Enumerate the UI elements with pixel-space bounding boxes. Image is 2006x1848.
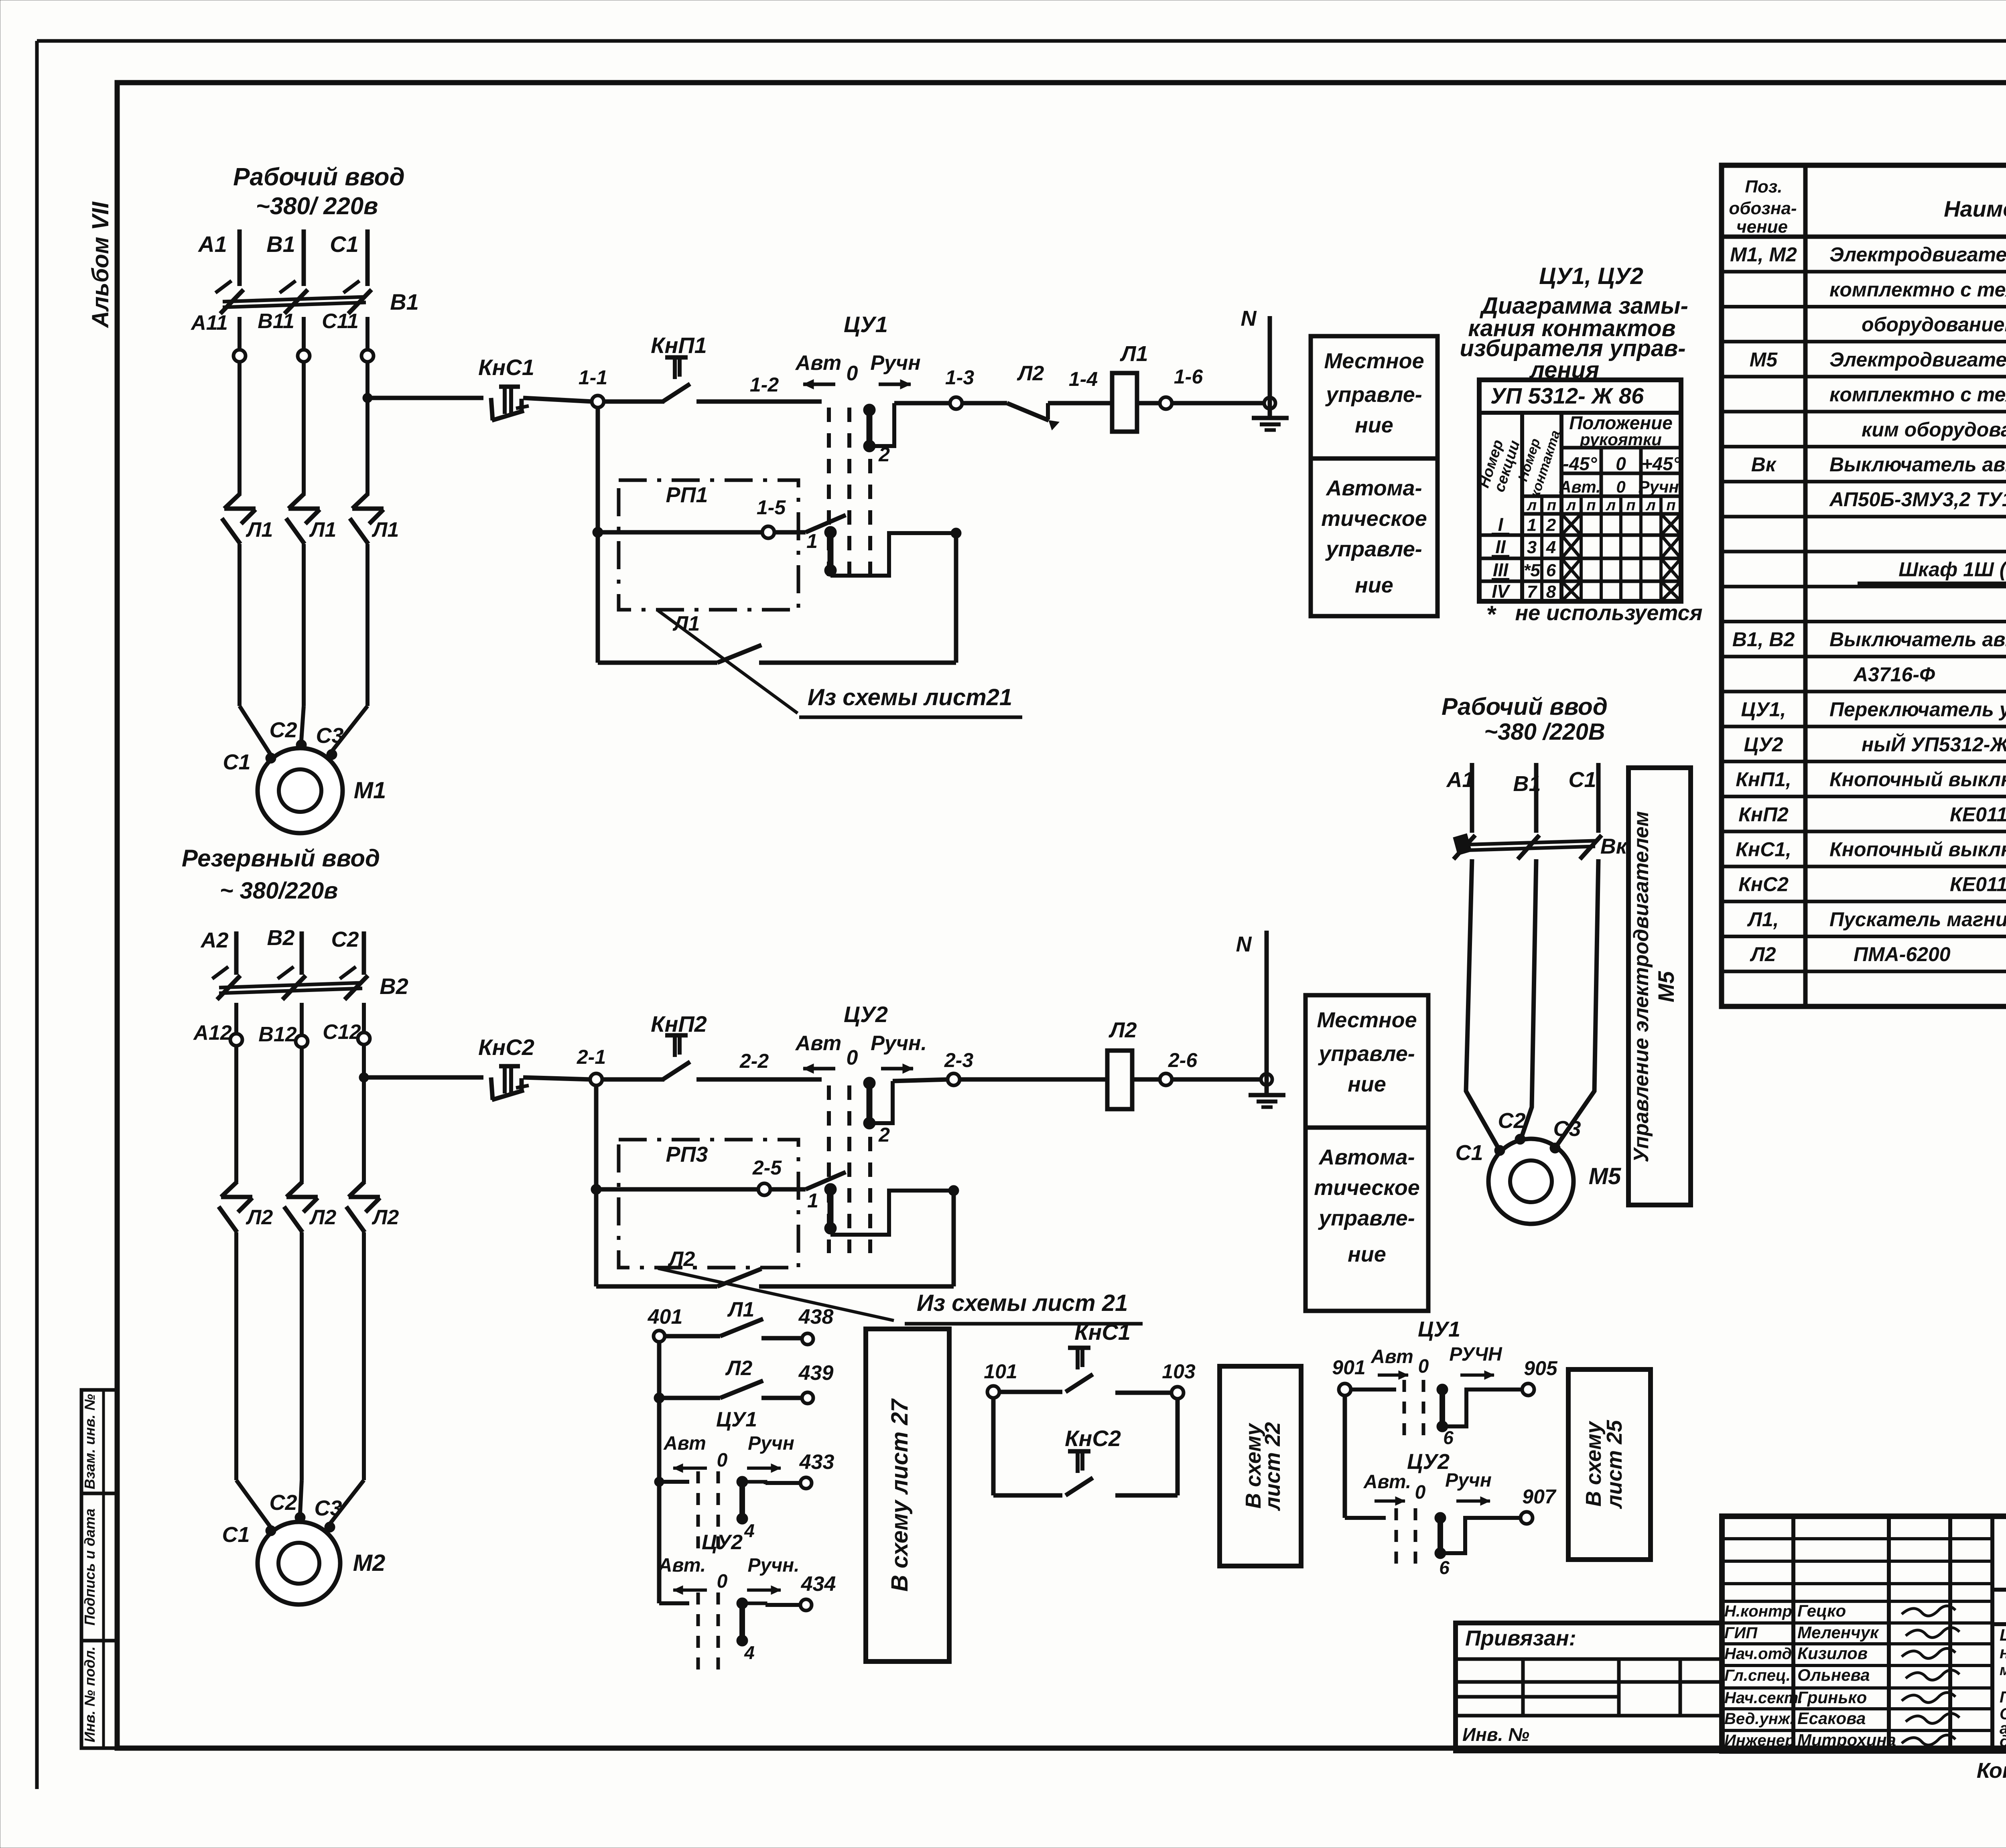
svg-text:Кнопочный выключатель: Кнопочный выключатель [1829, 768, 2006, 791]
svg-text:А12: А12 [193, 1021, 231, 1045]
svg-text:Подпись и дата: Подпись и дата [81, 1509, 98, 1626]
svg-text:КнС2: КнС2 [478, 1035, 534, 1060]
svg-text:6: 6 [1443, 1427, 1454, 1448]
svg-text:ние: ние [1355, 413, 1393, 437]
svg-text:л: л [1566, 497, 1576, 514]
svg-text:В схему лист 27: В схему лист 27 [887, 1398, 913, 1592]
svg-text:Управление электродвигателем: Управление электродвигателем [1630, 811, 1653, 1162]
svg-text:Резервный ввод: Резервный ввод [182, 845, 380, 872]
svg-text:~ 380/220в: ~ 380/220в [220, 878, 338, 904]
svg-text:0: 0 [717, 1571, 728, 1592]
svg-text:Л1: Л1 [372, 518, 399, 542]
svg-text:I: I [1498, 514, 1504, 535]
svg-text:В1, В2: В1, В2 [1732, 628, 1795, 651]
svg-text:Выключатель автоматический: Выключатель автоматический [1829, 628, 2006, 651]
svg-text:4: 4 [1546, 538, 1556, 557]
svg-text:N: N [1241, 306, 1257, 331]
svg-text:лист 25: лист 25 [1602, 1420, 1626, 1509]
svg-text:1-4: 1-4 [1069, 368, 1098, 390]
svg-text:В1: В1 [266, 231, 295, 257]
svg-text:М5: М5 [1589, 1163, 1621, 1189]
svg-text:0: 0 [1616, 453, 1626, 474]
svg-text:101: 101 [984, 1360, 1017, 1383]
svg-text:В2: В2 [267, 926, 294, 950]
svg-text:Выключатель автоматически: Выключатель автоматический [1829, 453, 2006, 476]
svg-text:1-5: 1-5 [757, 496, 786, 519]
svg-text:Взам. инв. №: Взам. инв. № [81, 1394, 98, 1489]
svg-text:ние: ние [1355, 573, 1393, 597]
svg-text:ЦУ1: ЦУ1 [716, 1408, 757, 1431]
svg-text:КнП1,: КнП1, [1736, 768, 1791, 791]
svg-text:п: п [1626, 497, 1635, 514]
svg-text:ким оборудованием: ким оборудованием [1862, 418, 2006, 441]
svg-text:управле-: управле- [1318, 1042, 1415, 1066]
svg-text:п: п [1586, 497, 1596, 514]
svg-text:С11: С11 [322, 310, 359, 333]
svg-text:С1: С1 [1568, 768, 1596, 792]
svg-text:С3: С3 [316, 724, 343, 748]
svg-text:ЦУ1: ЦУ1 [844, 312, 888, 337]
svg-text:6: 6 [1546, 561, 1556, 580]
svg-text:Авт: Авт [663, 1433, 706, 1454]
svg-text:Л1: Л1 [727, 1298, 755, 1321]
svg-text:1-3: 1-3 [945, 366, 974, 389]
svg-text:Ручн.: Ручн. [871, 1032, 927, 1055]
svg-text:Ольнева: Ольнева [1797, 1665, 1870, 1684]
svg-text:+45°: +45° [1642, 453, 1681, 474]
svg-text:чение: чение [1736, 217, 1788, 237]
svg-text:Из схемы лист 21: Из схемы лист 21 [917, 1290, 1128, 1316]
svg-text:7: 7 [1527, 582, 1538, 602]
svg-text:2-1: 2-1 [577, 1046, 606, 1068]
svg-text:комплектно с технологическ: комплектно с технологическим [1829, 278, 2006, 301]
svg-text:С1: С1 [1455, 1141, 1483, 1165]
svg-text:тическое: тическое [1321, 507, 1427, 531]
svg-text:~380 /220В: ~380 /220В [1484, 719, 1605, 745]
svg-text:Авт.: Авт. [1363, 1471, 1411, 1493]
svg-text:434: 434 [801, 1572, 836, 1596]
svg-text:тическое: тическое [1314, 1176, 1420, 1200]
svg-text:ние: ние [1348, 1072, 1386, 1096]
svg-text:Копировал Федоренко: Копировал Федоренко [1977, 1759, 2006, 1783]
svg-text:ЦУ2: ЦУ2 [1744, 733, 1783, 756]
svg-text:В2: В2 [380, 974, 408, 999]
svg-text:В11: В11 [258, 310, 294, 333]
svg-text:II: II [1495, 536, 1506, 557]
svg-text:л: л [1645, 497, 1656, 514]
svg-text:Авт.: Авт. [1559, 477, 1601, 496]
svg-text:Наименование: Наименование [1944, 196, 2006, 221]
svg-text:С2: С2 [269, 718, 297, 742]
svg-text:Л2: Л2 [1108, 1018, 1137, 1042]
svg-text:Рабочий ввод: Рабочий ввод [233, 163, 405, 191]
svg-text:Электродвигатель 4А225М2 У3: Электродвигатель 4А225М2 У3 [1829, 243, 2006, 266]
svg-text:управле-: управле- [1325, 383, 1422, 407]
svg-text:А2: А2 [200, 928, 228, 952]
svg-text:п: п [1547, 497, 1556, 514]
svg-text:N: N [1236, 932, 1252, 956]
svg-text:С1: С1 [223, 750, 250, 774]
svg-text:0: 0 [1418, 1356, 1429, 1377]
svg-text:Л1: Л1 [309, 518, 337, 542]
svg-text:В1: В1 [390, 289, 419, 314]
svg-text:КнП2: КнП2 [651, 1011, 707, 1037]
svg-text:Меленчук: Меленчук [1797, 1623, 1879, 1642]
svg-text:901: 901 [1332, 1356, 1365, 1379]
svg-text:Л1: Л1 [1119, 342, 1148, 366]
svg-text:III: III [1493, 560, 1509, 580]
svg-text:М1, М2: М1, М2 [1730, 243, 1797, 266]
svg-text:п: п [1666, 497, 1675, 514]
svg-text:КнС1: КнС1 [478, 355, 534, 380]
svg-text:М2: М2 [353, 1550, 386, 1576]
svg-text:Инв. №: Инв. № [1462, 1724, 1529, 1745]
svg-text:0: 0 [847, 362, 858, 385]
svg-text:л: л [1606, 497, 1616, 514]
svg-text:Л1: Л1 [246, 518, 273, 542]
svg-text:Автома-: Автома- [1318, 1145, 1415, 1169]
svg-text:КнС1,: КнС1, [1736, 838, 1791, 860]
svg-text:А11: А11 [190, 311, 228, 335]
svg-text:Л2: Л2 [1017, 362, 1044, 385]
svg-text:УП 5312- Ж 86: УП 5312- Ж 86 [1490, 383, 1644, 408]
svg-text:ЦУ1, ЦУ2: ЦУ1, ЦУ2 [1539, 263, 1643, 289]
svg-text:оборудованием: оборудованием [1862, 313, 2006, 336]
svg-text:Л2: Л2 [309, 1206, 337, 1229]
svg-text:Электродвигатель 4А100S2У3: Электродвигатель 4А100S2У3 [1829, 348, 2006, 371]
svg-text:Л2: Л2 [1750, 943, 1776, 966]
svg-text:АП50Б-3МУ3,2 ТУ16-522.139-78: АП50Б-3МУ3,2 ТУ16-522.139-78Е [1829, 488, 2006, 511]
svg-text:А1: А1 [197, 231, 227, 257]
svg-text:ЦУ2: ЦУ2 [844, 1002, 888, 1027]
svg-text:Вк: Вк [1600, 834, 1628, 858]
svg-text:ной оснастки и инвентаря.: ной оснастки и инвентаря. [2000, 1643, 2006, 1662]
svg-text:лист 22: лист 22 [1261, 1422, 1285, 1511]
svg-text:1-2: 1-2 [750, 373, 779, 396]
svg-text:2-5: 2-5 [752, 1156, 782, 1179]
svg-text:Вед.унж.: Вед.унж. [1724, 1710, 1794, 1728]
svg-text:КнС1: КнС1 [1074, 1319, 1131, 1345]
svg-text:КнС2: КнС2 [1738, 873, 1789, 896]
svg-text:Гецко: Гецко [1797, 1601, 1846, 1620]
svg-text:л: л [1527, 497, 1537, 514]
svg-text:КнП2: КнП2 [1738, 803, 1789, 826]
svg-text:КнС2: КнС2 [1065, 1426, 1121, 1451]
svg-text:439: 439 [798, 1361, 834, 1385]
svg-text:-45°: -45° [1563, 453, 1597, 474]
svg-text:Авт: Авт [795, 1032, 842, 1055]
svg-text:управле-: управле- [1318, 1206, 1415, 1230]
svg-text:Ручн: Ручн [870, 351, 920, 375]
svg-text:~380/ 220в: ~380/ 220в [256, 193, 378, 219]
svg-text:Автома-: Автома- [1325, 476, 1422, 500]
svg-text:2-2: 2-2 [739, 1050, 769, 1072]
svg-text:Поз.: Поз. [1745, 177, 1782, 197]
svg-text:РП1: РП1 [666, 483, 708, 507]
svg-text:907: 907 [1522, 1485, 1557, 1508]
svg-text:0: 0 [717, 1450, 728, 1471]
svg-text:Из схемы лист21: Из схемы лист21 [808, 684, 1012, 710]
svg-text:0: 0 [847, 1046, 858, 1069]
svg-text:Нач.сект.: Нач.сект. [1724, 1689, 1803, 1707]
svg-text:1: 1 [1527, 515, 1537, 535]
svg-text:3: 3 [1527, 538, 1537, 557]
svg-text:1-1: 1-1 [579, 366, 607, 389]
svg-text:Л2: Л2 [725, 1357, 753, 1380]
svg-text:Местное: Местное [1324, 349, 1424, 373]
svg-text:Кнопочный выключатель: Кнопочный выключатель [1829, 838, 2006, 860]
svg-text:4: 4 [744, 1642, 755, 1663]
svg-text:0: 0 [1415, 1482, 1426, 1503]
svg-text:Гл.спец.: Гл.спец. [1724, 1667, 1791, 1684]
svg-text:Вк: Вк [1751, 453, 1777, 476]
svg-text:С3: С3 [1553, 1117, 1581, 1141]
svg-text:управле-: управле- [1325, 537, 1422, 561]
svg-text:ПМА-6200: ПМА-6200 [1854, 943, 1951, 966]
svg-text:401: 401 [648, 1305, 683, 1329]
svg-text:РУЧН: РУЧН [1449, 1344, 1502, 1365]
svg-text:С12: С12 [323, 1020, 361, 1044]
svg-text:Л2: Л2 [246, 1206, 273, 1229]
svg-text:Альбом VII: Альбом VII [87, 201, 114, 329]
svg-text:Есакова: Есакова [1797, 1709, 1866, 1728]
svg-text:ЦУ2: ЦУ2 [1407, 1450, 1450, 1474]
svg-text:обозна-: обозна- [1729, 199, 1797, 218]
svg-text:Рабочий ввод: Рабочий ввод [1442, 693, 1608, 720]
svg-text:Нач.отд.: Нач.отд. [1724, 1645, 1796, 1663]
svg-text:А3716-Ф: А3716-Ф [1853, 663, 1935, 686]
svg-text:С1: С1 [222, 1523, 250, 1547]
svg-text:Кизилов: Кизилов [1797, 1644, 1868, 1663]
svg-text:1: 1 [807, 1189, 818, 1212]
svg-text:М5: М5 [1750, 348, 1778, 371]
svg-text:2: 2 [1546, 515, 1556, 535]
svg-text:Л2: Л2 [668, 1248, 695, 1271]
svg-text:ЦУ2: ЦУ2 [702, 1531, 743, 1554]
svg-text:*: * [1486, 601, 1496, 628]
svg-text:Пускатель магнитныЙ: Пускатель магнитныЙ [1829, 908, 2006, 931]
svg-text:Н.контр.: Н.контр. [1724, 1603, 1797, 1620]
svg-text:Шкаф 1Ш (ШОН5901М-4174): Шкаф 1Ш (ШОН5901М-4174) [1898, 558, 2006, 581]
svg-text:438: 438 [798, 1305, 834, 1329]
svg-text:0: 0 [1616, 477, 1625, 496]
svg-text:ЦУ1,: ЦУ1, [1741, 698, 1786, 721]
svg-text:Ручн.: Ручн. [747, 1555, 799, 1576]
svg-text:905: 905 [1524, 1357, 1558, 1379]
svg-text:2-3: 2-3 [944, 1049, 973, 1071]
svg-text:4: 4 [744, 1520, 755, 1541]
svg-text:ние: ние [1348, 1242, 1386, 1266]
svg-text:ГИП: ГИП [1724, 1624, 1758, 1642]
svg-text:КЕ011У3: КЕ011У3 [1950, 873, 2006, 896]
svg-text:комплектно с технологичес-: комплектно с технологичес- [1829, 383, 2006, 406]
svg-text:Инв. № подл.: Инв. № подл. [81, 1646, 98, 1742]
svg-text:1-6: 1-6 [1174, 365, 1203, 388]
svg-text:2: 2 [878, 1124, 890, 1146]
svg-text:IV: IV [1492, 581, 1511, 602]
svg-text:В схему: В схему [1582, 1420, 1606, 1507]
svg-text:не используется: не используется [1515, 601, 1703, 625]
svg-text:С2: С2 [1498, 1109, 1525, 1133]
svg-text:С2: С2 [331, 927, 359, 951]
svg-text:РП3: РП3 [666, 1142, 708, 1166]
svg-text:Ручн.: Ручн. [1639, 477, 1684, 496]
svg-text:2-6: 2-6 [1168, 1049, 1198, 1071]
svg-text:Местное: Местное [1317, 1008, 1417, 1032]
svg-text:ЦУ1: ЦУ1 [1418, 1317, 1460, 1341]
svg-text:103: 103 [1162, 1360, 1196, 1383]
svg-text:М5: М5 [1653, 971, 1679, 1002]
svg-text:Авт.: Авт. [658, 1555, 706, 1576]
svg-text:С1: С1 [330, 231, 359, 257]
svg-text:Инженер: Инженер [1724, 1732, 1795, 1749]
svg-text:КнП1: КнП1 [651, 333, 707, 358]
svg-text:С2: С2 [269, 1491, 297, 1515]
svg-text:двигателями М1, М2, М5.: двигателями М1, М2, М5. [2000, 1732, 2006, 1750]
svg-text:М1: М1 [354, 777, 386, 803]
svg-text:С3: С3 [314, 1496, 342, 1520]
svg-text:Привязан:: Привязан: [1465, 1626, 1576, 1650]
svg-text:Митрохина: Митрохина [1797, 1730, 1896, 1749]
svg-text:В12: В12 [258, 1023, 296, 1046]
svg-text:Переключатель универсал: Переключатель универсаль- [1829, 698, 2006, 721]
svg-text:Гринько: Гринько [1797, 1688, 1867, 1707]
svg-text:Авт: Авт [795, 351, 842, 375]
svg-text:*5: *5 [1523, 561, 1540, 580]
svg-text:433: 433 [799, 1450, 834, 1474]
svg-text:Производственный корпус.: Производственный корпус. [2000, 1688, 2006, 1706]
svg-text:мощностью 6 тыс. тонн изделий: мощностью 6 тыс. тонн изделий в год. [2000, 1662, 2006, 1679]
svg-text:Л1,: Л1, [1747, 908, 1779, 931]
svg-text:8: 8 [1546, 582, 1556, 602]
svg-text:Авт: Авт [1370, 1346, 1413, 1367]
svg-text:6: 6 [1439, 1557, 1450, 1578]
svg-text:КЕ011У3: КЕ011У3 [1950, 803, 2006, 826]
svg-text:Л2: Л2 [372, 1206, 399, 1229]
svg-text:Ручн: Ручн [1445, 1470, 1492, 1491]
svg-text:ныЙ УП5312-Ж86: ныЙ УП5312-Ж86 [1862, 733, 2006, 756]
svg-text:Цех по изготовлению строитель-: Цех по изготовлению строитель- [2000, 1625, 2006, 1644]
svg-text:Ручн: Ручн [748, 1433, 794, 1454]
